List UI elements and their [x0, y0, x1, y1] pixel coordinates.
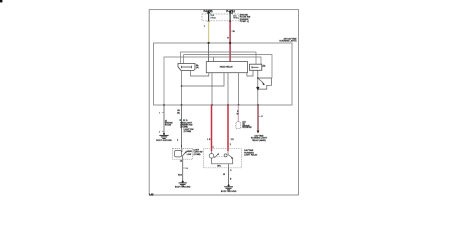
fuse F1 label (HEAD RH): [204, 10, 213, 15]
scan artifact top-left corner: [0, 0, 2, 2]
svg-text:(COMB): (COMB): [184, 131, 192, 133]
pin label 3: [230, 170, 232, 172]
svg-text:(B): (B): [177, 113, 180, 115]
dimmer switch contact: [182, 149, 187, 160]
svg-text:W-B: W-B: [178, 175, 183, 177]
DRL relay coil: [209, 151, 214, 164]
svg-text:BODY GROUND: BODY GROUND: [156, 140, 172, 142]
wire: relay pin4 down: [227, 73, 229, 105]
DRL relay box: [203, 149, 241, 168]
connector J2 label: [263, 66, 266, 68]
wire: relay pin2 down: [211, 73, 213, 105]
svg-text:HEAD RELAY: HEAD RELAY: [220, 65, 234, 68]
svg-text:ROOM: ROOM: [165, 124, 172, 126]
wire: to dimmer switch: [181, 105, 183, 149]
svg-text:ROOM J/B: ROOM J/B: [242, 127, 252, 129]
pin label 16: [180, 161, 183, 163]
tick label: [183, 168, 189, 170]
svg-text:HEAD: HEAD: [210, 16, 216, 19]
fuse F2: [229, 11, 231, 22]
svg-text:5: 5: [159, 113, 161, 115]
wire code block: [180, 119, 194, 133]
dimmer switch knob: [175, 151, 182, 157]
wire: internal bus A: [181, 52, 257, 64]
wire: relay pin1 to J1: [191, 71, 209, 77]
pin stub relay top: [212, 57, 214, 62]
svg-text:1: 1: [181, 145, 183, 147]
wire: red output 2: [227, 105, 229, 151]
wire label R: [227, 31, 235, 40]
svg-text:BODY GROUND: BODY GROUND: [221, 191, 237, 193]
wire label L-Y: [204, 26, 206, 28]
svg-text:RELAY (MAIN): RELAY (MAIN): [252, 139, 266, 142]
wire: relay pin5 down: [238, 73, 240, 105]
svg-text:1: 1: [213, 147, 215, 149]
outer frame border: [149, 10, 298, 195]
DRL relay label: [244, 149, 258, 156]
wire label R-W: [237, 111, 239, 116]
wire: relay internal bottom: [212, 164, 233, 168]
label to DRL relay (main): [251, 135, 268, 142]
svg-text:2: 2: [230, 144, 232, 146]
fuse F2 label (HEAD LH): [226, 10, 235, 15]
node dots on box bottom: [163, 104, 259, 106]
svg-text:LIGHT RELAY: LIGHT RELAY: [244, 153, 258, 156]
svg-text:2: 2: [177, 140, 179, 142]
connector A2 label: [242, 121, 252, 129]
label (W/ DAYTIME RUNNING LIGHT): [279, 37, 297, 42]
pin labels above components: [177, 139, 234, 148]
relay internal label: [217, 166, 221, 168]
relay U1 (headlight relay) box: [206, 62, 247, 73]
svg-text:1 R: 1 R: [207, 139, 211, 141]
svg-text:B: B: [230, 179, 232, 181]
connector J1 (left): [178, 64, 195, 71]
ground G2 label: [175, 187, 191, 189]
svg-text:4: 4: [159, 131, 161, 133]
wire: red output 1: [211, 105, 213, 151]
DRL relay contact 2: [224, 151, 233, 164]
dimmer switch label: [194, 150, 203, 156]
node junction: [181, 85, 183, 87]
svg-text:(A): (A): [196, 66, 199, 69]
DRL relay contact 1: [214, 153, 219, 158]
svg-text:Y: Y: [204, 26, 206, 28]
arrow end: [257, 131, 260, 134]
fuse block dashed box (engine room R/B): [202, 14, 239, 21]
svg-text:3: 3: [230, 170, 232, 172]
node: red feed junction on box top: [229, 42, 231, 44]
svg-text:RUNNING LIGHT): RUNNING LIGHT): [279, 41, 296, 43]
wire label block: [165, 120, 173, 126]
wire: feed continues inside box: [208, 43, 210, 62]
wire: relay pin6 to J2: [247, 70, 253, 76]
svg-text:R: R: [227, 38, 229, 40]
wire: dimmer to ground: [182, 159, 184, 181]
svg-text:W: W: [237, 114, 239, 116]
svg-text:COMP. L): COMP. L): [240, 21, 249, 23]
ground G1 label: [156, 140, 172, 142]
svg-text:W: W: [223, 174, 225, 176]
wire: maroon to DRL relay main: [257, 105, 259, 131]
node: yellow feed junction on box top: [208, 42, 210, 44]
connector J2 (right): [250, 64, 262, 70]
switch position labels: [187, 150, 193, 156]
diagram id bottom-left: [149, 194, 154, 196]
svg-text:30: 30: [233, 31, 236, 33]
integration relay outer box: [154, 43, 293, 105]
svg-text:HEAD: HEAD: [233, 17, 239, 20]
ground G3: [224, 184, 233, 189]
headlight dimmer switch dashed box: [173, 149, 193, 160]
fuse F2 value label: [233, 14, 239, 19]
svg-text:32: 32: [261, 116, 264, 118]
connector A2 pentagon: [236, 121, 241, 128]
connector code label: [177, 109, 181, 115]
ground G2: [179, 181, 187, 186]
ground G3 label: [221, 191, 237, 193]
wire: to connector A2: [237, 105, 239, 121]
wire label W-B: [178, 175, 183, 177]
svg-text:HEAD: HEAD: [187, 150, 193, 153]
wire tick label: [258, 116, 264, 118]
wire tick label: [159, 113, 164, 115]
tick label left of ground wire: [159, 131, 164, 133]
svg-text:1G: 1G: [185, 168, 188, 170]
wire: J1 bottom down: [181, 71, 183, 106]
wire: DRL relay to ground: [228, 168, 230, 185]
wire: internal bus B: [184, 55, 272, 78]
wire red feed from F2: [229, 21, 231, 61]
wire yellow feed from F1: [208, 21, 210, 43]
connector J1 label: [196, 64, 199, 69]
ground G1: [159, 133, 168, 139]
relay box name label (right of fuse box): [240, 15, 251, 23]
dashed link: [214, 155, 224, 157]
wire labels: [223, 174, 232, 181]
wire: internal bus C: [164, 57, 261, 105]
switch S1 (dimmer, inside box): [258, 70, 272, 89]
fuse F1 value label: [210, 14, 216, 19]
wire: ground branch left: [163, 105, 165, 134]
svg-text:LOW: LOW: [187, 154, 192, 156]
svg-text:(COMB): (COMB): [194, 154, 201, 156]
svg-text:2 R: 2 R: [231, 139, 235, 141]
svg-text:BODY GROUND: BODY GROUND: [175, 187, 191, 189]
svg-text:DRL: DRL: [217, 166, 221, 168]
svg-text:(B): (B): [263, 66, 266, 68]
wire: relay pin3 to left drop: [182, 73, 225, 86]
fuse F1: [208, 11, 210, 22]
